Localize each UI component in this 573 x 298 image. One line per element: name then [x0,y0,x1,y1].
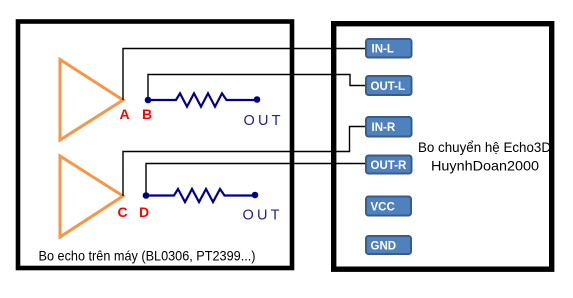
svg-text:Bo echo trên máy (BL0306, PT23: Bo echo trên máy (BL0306, PT2399...) [39,248,256,264]
svg-text:VCC: VCC [371,201,395,213]
svg-text:OUT: OUT [244,113,284,129]
node OUT dot (R1 right) [254,96,261,103]
svg-text:HuynhDoan2000: HuynhDoan2000 [431,158,539,174]
svg-text:Bo chuyển hệ Echo3D: Bo chuyển hệ Echo3D [418,139,551,155]
svg-text:OUT: OUT [243,208,283,224]
pin GND [366,236,411,254]
svg-text:GND: GND [371,241,397,253]
right box: converter board enclosure [334,24,552,270]
op-amp buffer triangle U2 [60,156,123,237]
svg-text:B: B [142,106,152,122]
pin OUT-R [366,156,412,174]
svg-text:C: C [117,204,127,220]
wire A to IN-L [123,49,365,101]
svg-text:D: D [139,204,149,220]
wire B to OUT-L [148,75,365,101]
pin IN-R [366,117,412,137]
node B junction dot [145,97,152,104]
svg-text:OUT-R: OUT-R [371,160,407,172]
svg-text:IN-L: IN-L [372,44,394,56]
svg-text:IN-R: IN-R [372,122,396,134]
pin OUT-L [366,76,412,95]
pin VCC [366,197,411,216]
node OUT dot (R2 right) [252,192,259,199]
svg-text:A: A [119,106,129,122]
wire C to IN-R [123,127,365,197]
node D junction dot [143,192,150,199]
pin IN-L [366,39,412,58]
svg-text:OUT-L: OUT-L [371,81,406,93]
resistor R1 [151,93,254,106]
resistor R2 [149,189,252,202]
op-amp buffer triangle U1 [60,60,123,141]
left box: echo board enclosure [18,22,292,269]
wire D to OUT-R [146,164,365,197]
